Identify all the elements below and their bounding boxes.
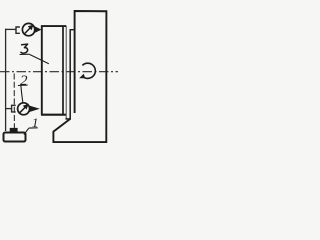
plate right edge <box>62 26 64 115</box>
indicator stand column <box>5 29 7 131</box>
rotation symbol arc <box>82 63 95 78</box>
label 1 underline <box>29 127 38 129</box>
label 3 underline <box>20 53 30 55</box>
label 1 leader <box>24 128 29 134</box>
dial indicator (upper) body <box>22 23 34 35</box>
upper indicator contact tip <box>34 26 41 32</box>
label 3 <box>21 44 28 53</box>
faceplate strip right edge <box>69 30 71 120</box>
support block 1 <box>4 133 26 142</box>
lower indicator needle <box>19 107 25 113</box>
upper indicator clamp <box>16 27 20 33</box>
indicator stem rod <box>13 74 15 129</box>
lower indicator contact tip <box>29 106 39 112</box>
stand upper arm <box>5 28 17 30</box>
plate bottom edge <box>41 114 66 116</box>
faceplate strip bottom edge <box>65 118 71 120</box>
dial indicator (lower) body <box>18 103 30 115</box>
stand lower arm <box>5 108 12 110</box>
fixture body (right) <box>53 11 106 142</box>
upper indicator needle arrowhead <box>28 25 34 31</box>
workpiece plate <box>42 26 67 115</box>
label 3 leader <box>29 54 48 63</box>
label 2 leader <box>21 86 23 102</box>
lower indicator clamp <box>12 105 16 112</box>
paper background <box>0 0 127 152</box>
label 2 underline <box>18 84 28 86</box>
upper indicator needle <box>24 28 30 35</box>
rotation symbol arrowhead <box>79 74 85 79</box>
body step tick <box>70 29 75 31</box>
lower indicator needle arrowhead <box>23 104 29 110</box>
support pin (filled) <box>10 128 18 132</box>
faceplate strip left edge <box>65 26 67 119</box>
centerline (rotation axis, dash-dot) <box>0 71 118 73</box>
